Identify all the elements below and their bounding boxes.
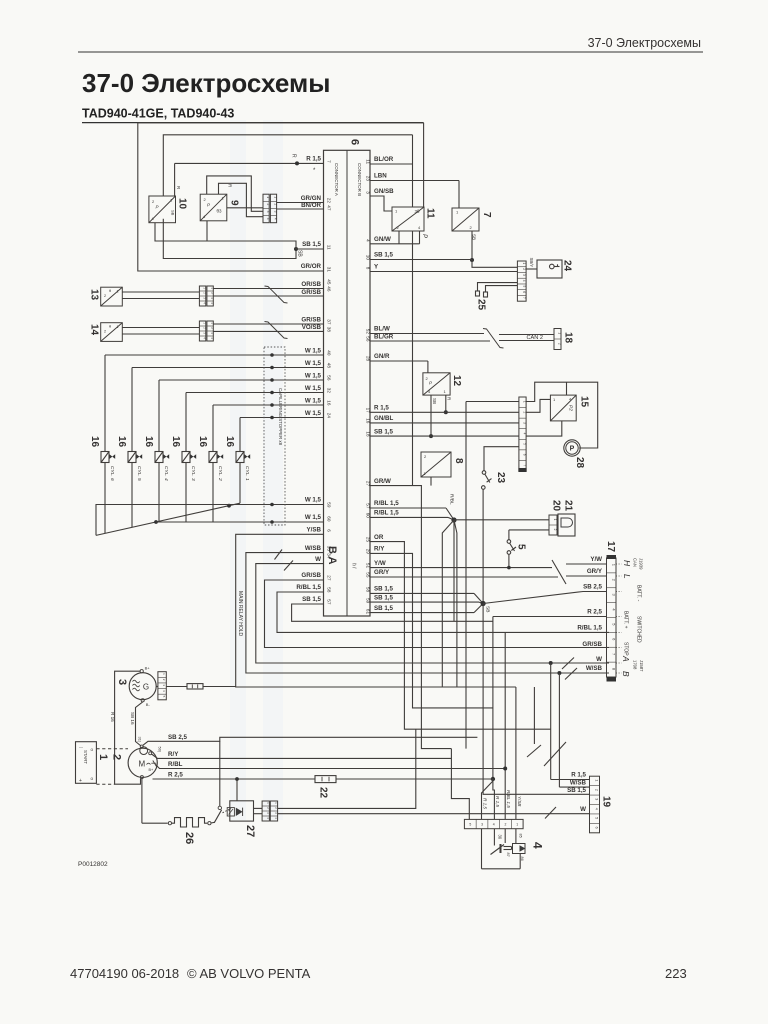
svg-text:CYL. 2: CYL. 2 (217, 466, 223, 481)
svg-text:R 1,5: R 1,5 (495, 796, 500, 807)
svg-text:A: A (621, 655, 631, 662)
svg-text:W/SB: W/SB (570, 780, 587, 787)
svg-text:CAN: CAN (633, 558, 638, 567)
svg-text:23: 23 (365, 176, 370, 182)
svg-text:GR/Y: GR/Y (587, 568, 603, 575)
svg-text:W 1,5: W 1,5 (305, 410, 322, 417)
svg-text:1: 1 (558, 332, 562, 334)
svg-text:2: 2 (522, 268, 526, 270)
svg-text:48: 48 (327, 363, 332, 369)
svg-text:GR/OR: GR/OR (301, 263, 322, 270)
svg-text:SB 1,5: SB 1,5 (374, 605, 393, 612)
svg-text:4: 4 (274, 218, 278, 220)
svg-text:BATT. -: BATT. - (636, 585, 642, 602)
svg-text:25: 25 (365, 537, 370, 543)
svg-text:1708: 1708 (633, 660, 638, 670)
svg-text:3: 3 (116, 679, 128, 685)
svg-text:SB 1,5: SB 1,5 (302, 241, 321, 248)
svg-text:16: 16 (327, 400, 332, 406)
svg-text:—: — (79, 744, 83, 749)
svg-text:© AB VOLVO PENTA: © AB VOLVO PENTA (187, 966, 311, 981)
svg-text:CYL. 4: CYL. 4 (163, 466, 169, 481)
svg-text:R 2,5: R 2,5 (168, 771, 183, 778)
svg-text:30: 30 (498, 835, 503, 840)
svg-text:27: 27 (365, 481, 370, 487)
svg-text:CYL. 5: CYL. 5 (136, 466, 142, 481)
svg-text:7: 7 (327, 160, 332, 163)
svg-text:6: 6 (595, 827, 599, 829)
svg-text:9: 9 (229, 200, 240, 206)
svg-text:R/Y: R/Y (168, 751, 179, 758)
svg-text:14: 14 (89, 324, 100, 336)
svg-text:2: 2 (274, 203, 278, 205)
svg-text:R/BL 1,5: R/BL 1,5 (374, 510, 399, 517)
svg-text:CAN 2: CAN 2 (527, 335, 543, 341)
svg-text:57: 57 (365, 503, 370, 509)
svg-text:R 1,5: R 1,5 (571, 772, 586, 779)
svg-text:B+: B+ (145, 666, 151, 671)
svg-text:7: 7 (523, 464, 527, 466)
svg-text:6: 6 (349, 139, 361, 145)
svg-text:H: H (622, 560, 632, 567)
svg-text:P: P (570, 445, 575, 452)
svg-text:J1939: J1939 (639, 558, 644, 570)
svg-text:4: 4 (522, 280, 526, 282)
svg-text:R/BL: R/BL (449, 494, 455, 505)
svg-text:37-0 Электросхемы: 37-0 Электросхемы (82, 68, 330, 98)
svg-text:16: 16 (89, 436, 100, 448)
svg-text:P: P (207, 203, 210, 208)
svg-text:GN/BL: GN/BL (374, 415, 393, 422)
svg-text:2: 2 (266, 203, 270, 205)
svg-text:17: 17 (605, 541, 616, 553)
svg-text:SB: SB (297, 250, 303, 257)
svg-text:GR/W: GR/W (374, 478, 391, 485)
svg-text:37: 37 (327, 319, 332, 325)
svg-text:25: 25 (476, 299, 487, 311)
svg-text:28: 28 (574, 457, 585, 469)
svg-text:60: 60 (365, 513, 370, 519)
svg-text:3: 3 (481, 822, 483, 826)
svg-text:CYL. 1: CYL. 1 (244, 466, 250, 481)
svg-text:87: 87 (506, 853, 510, 857)
svg-text:1: 1 (117, 325, 119, 329)
svg-text:2: 2 (558, 343, 562, 345)
svg-text:45: 45 (327, 279, 332, 285)
svg-text:SB 16: SB 16 (130, 712, 135, 725)
svg-text:W 1,5: W 1,5 (305, 347, 322, 354)
svg-text:38: 38 (327, 327, 332, 333)
svg-text:46: 46 (327, 286, 332, 292)
svg-text:7: 7 (481, 212, 492, 218)
svg-text:Y/W: Y/W (590, 556, 602, 563)
svg-text:LBN: LBN (374, 173, 387, 180)
svg-text:24: 24 (562, 260, 573, 272)
svg-text:5: 5 (595, 817, 599, 819)
svg-text:+: + (79, 778, 82, 784)
svg-text:OR: OR (374, 534, 384, 541)
svg-text:GR/SB: GR/SB (301, 316, 321, 323)
svg-text:BL/GR: BL/GR (374, 333, 394, 340)
svg-text:47704190 06-2018: 47704190 06-2018 (70, 966, 179, 981)
svg-text:θ: θ (109, 325, 111, 329)
svg-text:16: 16 (365, 418, 370, 424)
svg-text:R/BL 1,5: R/BL 1,5 (577, 625, 602, 632)
svg-text:B-: B- (146, 702, 151, 707)
svg-text:BN/OR: BN/OR (301, 202, 321, 209)
svg-text:SB 1,5: SB 1,5 (567, 787, 586, 794)
svg-text:P: P (429, 381, 432, 386)
svg-text:R/Y: R/Y (374, 546, 385, 553)
svg-text:18: 18 (365, 431, 370, 437)
svg-text:5: 5 (469, 822, 471, 826)
svg-text:W/SB: W/SB (586, 665, 603, 672)
svg-text:16: 16 (170, 436, 181, 448)
svg-text:R 1,5: R 1,5 (482, 798, 487, 809)
svg-text:h l: h l (351, 563, 357, 569)
svg-text:33: 33 (327, 546, 332, 552)
svg-text:θ3: θ3 (217, 209, 223, 214)
svg-text:BATT. +: BATT. + (623, 611, 629, 629)
svg-text:P: P (156, 205, 159, 210)
svg-text:85: 85 (519, 834, 523, 838)
svg-text:5: 5 (523, 443, 527, 445)
svg-text:13: 13 (89, 289, 100, 301)
svg-text:52: 52 (365, 329, 370, 335)
svg-text:17: 17 (365, 408, 370, 414)
svg-text:58: 58 (327, 587, 332, 593)
svg-text:15: 15 (578, 396, 589, 408)
svg-text:W/SB: W/SB (305, 545, 322, 552)
svg-text:GN/W: GN/W (374, 236, 391, 243)
svg-text:VO/SB: VO/SB (302, 324, 322, 331)
svg-text:θ: θ (109, 289, 111, 293)
svg-text:CAPILLERING STOPPER x8: CAPILLERING STOPPER x8 (278, 388, 283, 446)
svg-text:56: 56 (365, 336, 370, 342)
svg-text:R/BL 1,5: R/BL 1,5 (506, 790, 511, 808)
svg-text:22: 22 (318, 787, 329, 799)
svg-text:7: 7 (522, 297, 526, 299)
svg-text:86: 86 (520, 857, 524, 861)
svg-text:16: 16 (143, 436, 154, 448)
svg-text:W: W (315, 556, 321, 563)
svg-text:59: 59 (327, 502, 332, 508)
svg-text:37-0 Электросхемы: 37-0 Электросхемы (588, 36, 701, 50)
svg-text:4: 4 (531, 842, 545, 849)
svg-text:3: 3 (523, 422, 527, 424)
svg-text:2: 2 (595, 789, 599, 791)
svg-text:3: 3 (595, 798, 599, 800)
svg-text:11: 11 (327, 245, 332, 250)
svg-text:1: 1 (266, 196, 270, 198)
svg-text:W 1,5: W 1,5 (305, 514, 322, 521)
svg-text:MAIN RELAY HOLD: MAIN RELAY HOLD (237, 591, 243, 636)
svg-text:3θ: 3θ (415, 209, 421, 214)
svg-text:Y/W: Y/W (374, 560, 386, 567)
svg-text:27: 27 (327, 575, 332, 581)
svg-text:4: 4 (266, 218, 270, 220)
svg-text:SB 1,5: SB 1,5 (374, 252, 393, 259)
svg-text:BL/W: BL/W (374, 326, 390, 333)
svg-text:29: 29 (365, 549, 370, 555)
svg-text:W 1,5: W 1,5 (305, 372, 322, 379)
svg-text:4: 4 (493, 822, 495, 826)
svg-text:W 1,5: W 1,5 (305, 385, 322, 392)
svg-text:16: 16 (197, 436, 208, 448)
svg-text:SB 1,5: SB 1,5 (374, 428, 393, 435)
svg-text:6: 6 (327, 529, 332, 532)
svg-text:8: 8 (365, 267, 370, 270)
svg-text:11: 11 (425, 208, 436, 219)
svg-text:BL/OR: BL/OR (374, 156, 394, 163)
svg-text:32: 32 (327, 388, 332, 394)
svg-text:SB 2,5: SB 2,5 (168, 734, 187, 741)
svg-text:W 1,5: W 1,5 (305, 497, 322, 504)
svg-text:R/BL 1,5: R/BL 1,5 (374, 500, 399, 507)
svg-text:L: L (622, 574, 632, 579)
svg-text:TAD940-41GE, TAD940-43: TAD940-41GE, TAD940-43 (82, 107, 234, 121)
svg-text:12: 12 (451, 375, 462, 387)
svg-text:SB: SB (432, 398, 437, 404)
svg-text:58: 58 (365, 587, 370, 593)
svg-text:CYL. 6: CYL. 6 (109, 466, 115, 481)
svg-text:STOP: STOP (623, 642, 629, 656)
svg-text:26: 26 (183, 832, 195, 844)
svg-text:Y/SB: Y/SB (517, 796, 522, 806)
svg-text:CYL. 3: CYL. 3 (190, 466, 196, 481)
svg-text:3: 3 (522, 274, 526, 276)
svg-text:40: 40 (327, 350, 332, 356)
svg-text:START: START (83, 750, 88, 764)
svg-text:2: 2 (104, 294, 106, 298)
svg-text:1: 1 (523, 401, 527, 403)
svg-text:47: 47 (327, 205, 332, 211)
svg-text:10: 10 (365, 255, 370, 261)
svg-text:2: 2 (111, 754, 123, 760)
svg-text:2: 2 (505, 822, 507, 826)
svg-text:4: 4 (523, 433, 527, 435)
svg-text:CONNECTOR A: CONNECTOR A (334, 163, 339, 196)
svg-text:1: 1 (595, 779, 599, 781)
svg-text:1: 1 (274, 196, 278, 198)
svg-text:B+: B+ (149, 768, 155, 772)
svg-text:W: W (580, 806, 586, 813)
svg-text:59: 59 (365, 598, 370, 604)
svg-text:W 1,5: W 1,5 (305, 397, 322, 404)
svg-text:G: G (143, 683, 149, 692)
svg-text:SB: SB (485, 606, 491, 612)
svg-text:2: 2 (553, 529, 557, 531)
svg-text:P: P (421, 234, 427, 238)
svg-text:CONNECTOR B: CONNECTOR B (357, 163, 362, 196)
svg-text:10: 10 (177, 198, 188, 210)
svg-text:M: M (139, 760, 146, 769)
svg-text:3: 3 (274, 211, 278, 213)
svg-text:31: 31 (327, 267, 332, 273)
svg-text:P2: P2 (568, 405, 574, 411)
svg-text:18: 18 (563, 332, 574, 344)
svg-text:16: 16 (224, 436, 235, 448)
svg-text:21: 21 (563, 500, 574, 512)
svg-text:1: 1 (522, 262, 526, 264)
svg-text:19: 19 (601, 796, 612, 808)
svg-text:GR/SB: GR/SB (301, 289, 321, 296)
svg-text:R 2,5: R 2,5 (587, 609, 602, 616)
svg-text:R: R (291, 154, 297, 158)
svg-text:SB 1,5: SB 1,5 (374, 594, 393, 601)
svg-text:B: B (621, 671, 631, 677)
svg-text:GR/GN: GR/GN (301, 195, 322, 202)
svg-text:Y/SB: Y/SB (307, 527, 322, 534)
svg-text:61: 61 (365, 609, 370, 615)
svg-text:GR/SB: GR/SB (582, 641, 602, 648)
svg-text:5: 5 (516, 544, 527, 550)
svg-text:2: 2 (104, 330, 106, 334)
svg-text:22: 22 (327, 198, 332, 204)
svg-text:R 1,5: R 1,5 (306, 156, 321, 163)
svg-text:50): 50) (158, 747, 163, 753)
svg-text:W: W (596, 656, 602, 663)
svg-text:SB: SB (170, 210, 175, 216)
svg-text:4: 4 (365, 239, 370, 242)
svg-text:SB 1,5: SB 1,5 (374, 586, 393, 593)
svg-text:57: 57 (327, 599, 332, 605)
svg-text:GN/SB: GN/SB (374, 188, 394, 195)
svg-text:SWITCHED: SWITCHED (636, 616, 642, 643)
svg-text:GR/SB: GR/SB (301, 572, 321, 579)
svg-text:23: 23 (495, 472, 506, 484)
svg-text:R/BL: R/BL (168, 761, 183, 768)
svg-text:P0012802: P0012802 (78, 861, 108, 868)
svg-text:2: 2 (523, 411, 527, 413)
svg-text:1: 1 (553, 519, 557, 521)
svg-text:1: 1 (516, 822, 518, 826)
svg-text:16: 16 (116, 436, 127, 448)
svg-text:1: 1 (97, 754, 109, 760)
svg-text:34: 34 (327, 553, 332, 559)
svg-text:60: 60 (327, 516, 332, 522)
svg-text:5: 5 (522, 285, 526, 287)
svg-text:J1587: J1587 (639, 660, 644, 672)
svg-text:28: 28 (365, 356, 370, 362)
svg-text:1: 1 (117, 290, 119, 294)
svg-text:51: 51 (365, 563, 370, 569)
svg-text:8: 8 (453, 458, 464, 464)
svg-text:3: 3 (365, 191, 370, 194)
svg-text:R 16: R 16 (110, 712, 115, 722)
svg-text:6: 6 (522, 291, 526, 293)
svg-text:GR/Y: GR/Y (374, 569, 390, 576)
svg-text:4: 4 (595, 808, 599, 810)
svg-text:SB/Y: SB/Y (529, 258, 534, 268)
svg-text:SB 1,5: SB 1,5 (302, 596, 321, 603)
svg-text:223: 223 (665, 966, 687, 981)
svg-text:31): 31) (137, 737, 142, 743)
svg-text:SB 2,5: SB 2,5 (583, 584, 602, 591)
svg-text:6: 6 (523, 454, 527, 456)
svg-text:56: 56 (327, 375, 332, 381)
svg-text:R/BL 1,5: R/BL 1,5 (296, 584, 321, 591)
svg-text:24: 24 (327, 413, 332, 419)
svg-text:R 1,5: R 1,5 (374, 405, 389, 412)
svg-text:27: 27 (244, 825, 256, 837)
svg-text:11: 11 (365, 159, 370, 164)
svg-text:20: 20 (551, 500, 562, 512)
svg-text:W 1,5: W 1,5 (305, 360, 322, 367)
svg-text:OR/SB: OR/SB (301, 281, 321, 288)
svg-text:GN/R: GN/R (374, 353, 390, 360)
svg-text:55: 55 (365, 572, 370, 578)
svg-text:3: 3 (266, 211, 270, 213)
